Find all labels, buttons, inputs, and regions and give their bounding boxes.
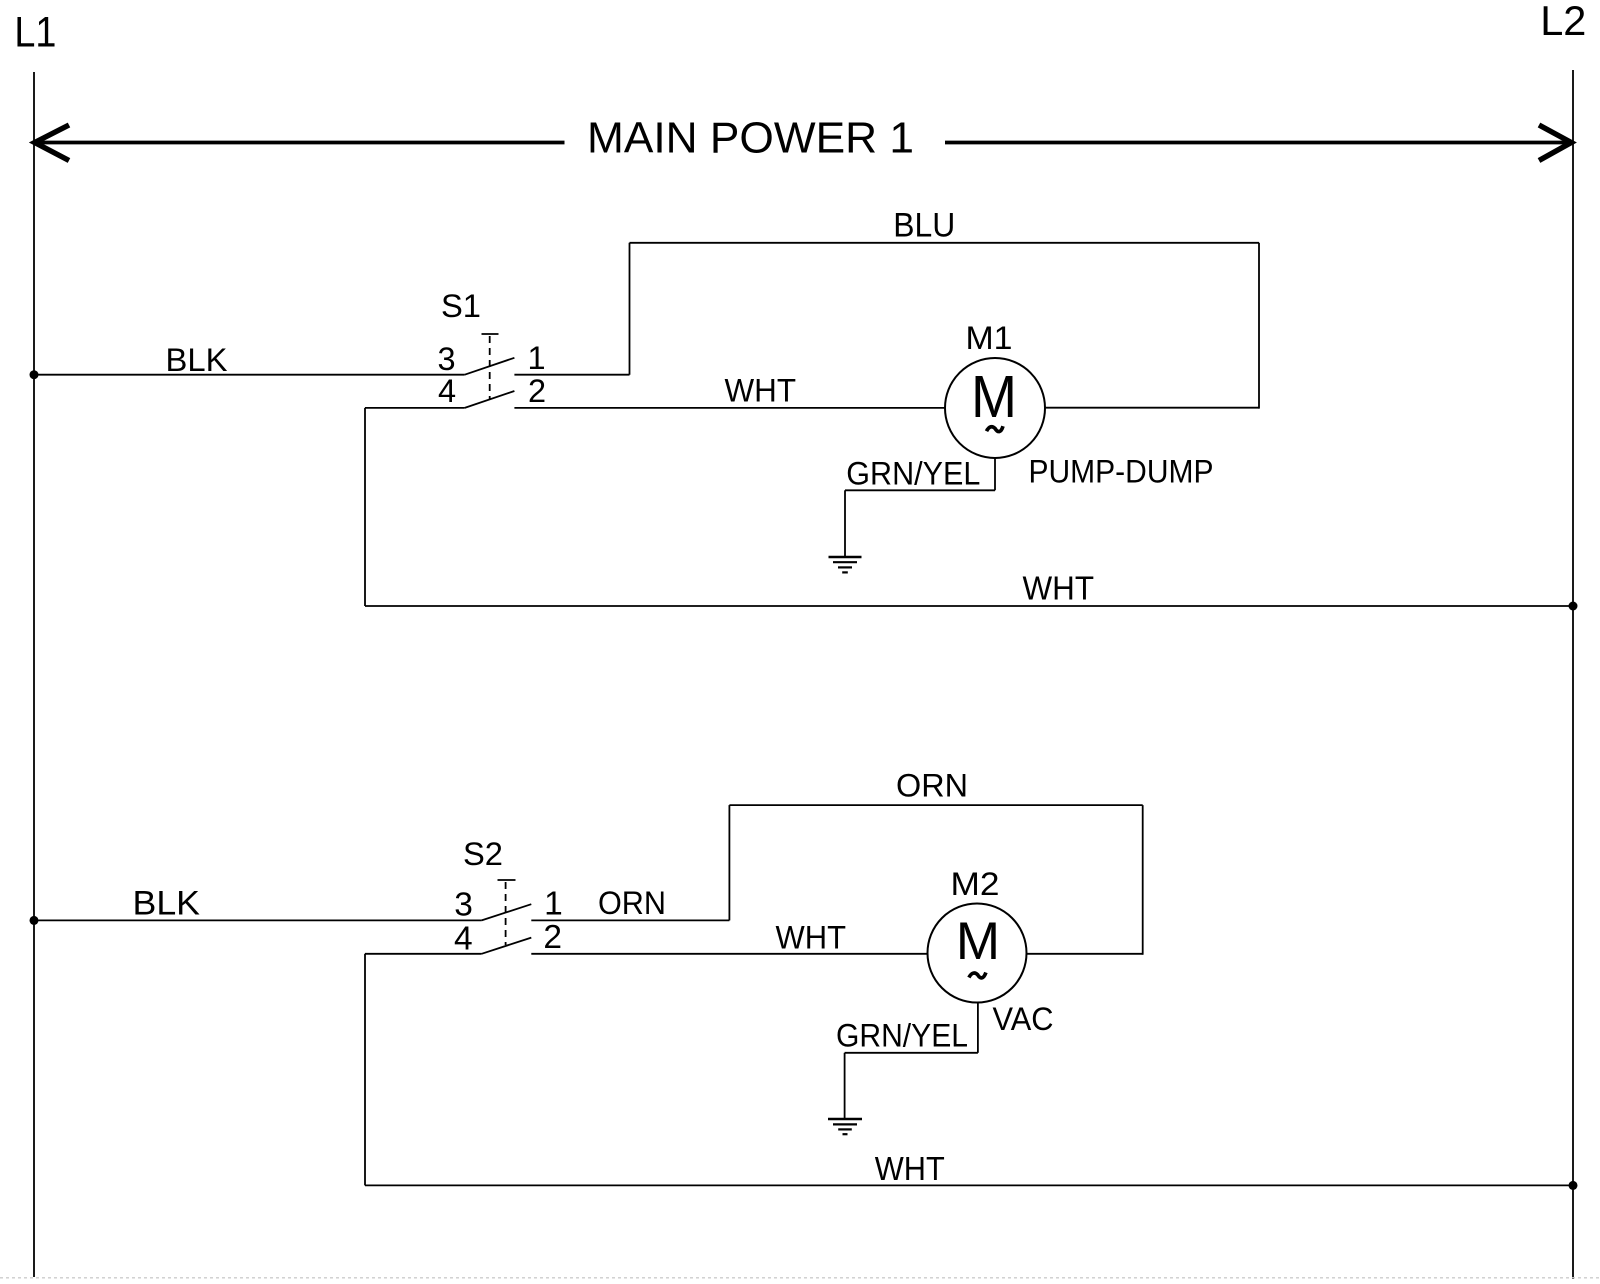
svg-text:WHT: WHT (725, 373, 797, 409)
svg-text:4: 4 (438, 373, 456, 409)
wire BLK from L1 to S1 pin 3 (34, 374, 465, 376)
wire L1 rail (33, 72, 35, 1277)
wire ground lead horizontal (845, 489, 995, 491)
wire WHT return 2 to L2 (365, 1184, 1573, 1186)
wire WHT return to L2 (365, 605, 1573, 607)
svg-text:M2: M2 (951, 866, 1000, 902)
motor M1 tilde (987, 426, 1004, 431)
svg-text:ORN: ORN (896, 768, 968, 804)
svg-text:S1: S1 (441, 288, 481, 324)
bottom edge faint dotted artifact (0, 1277, 1600, 1279)
wire WHT S1 pin2 to M1 (514, 407, 945, 409)
switch S2 actuator T-bar (498, 879, 516, 881)
node junction dot L1/BLK (30, 370, 39, 379)
wire ground lead drop 2 (844, 1053, 846, 1119)
svg-text:L1: L1 (14, 10, 56, 57)
svg-text:WHT: WHT (776, 920, 847, 956)
wire ORN top rail (729, 804, 1142, 806)
svg-text:MAIN POWER 1: MAIN POWER 1 (587, 115, 914, 163)
wire BLU top rail (630, 242, 1260, 244)
svg-text:PUMP-DUMP: PUMP-DUMP (1029, 454, 1214, 490)
wire BLU right drop (1258, 243, 1260, 409)
motor M1 circle (945, 358, 1045, 458)
svg-text:VAC: VAC (993, 1001, 1054, 1037)
wire M2 right lead (1026, 953, 1143, 955)
wire left drop to WHT return (364, 408, 366, 606)
svg-text:S2: S2 (463, 836, 503, 872)
svg-text:4: 4 (454, 920, 473, 957)
motor M2 tilde (969, 973, 986, 978)
switch S1 actuator dashed link (489, 336, 491, 399)
svg-text:2: 2 (528, 373, 546, 409)
wire ground lead horizontal 2 (845, 1052, 978, 1054)
svg-text:BLK: BLK (133, 885, 201, 923)
wire ground lead drop (844, 490, 846, 557)
wire S2 pin1 to ORN riser (531, 919, 729, 921)
svg-text:M: M (971, 364, 1017, 430)
node junction dot WHT/L2 (1569, 602, 1578, 611)
motor M2 circle (928, 904, 1027, 1003)
svg-text:3: 3 (454, 887, 473, 924)
switch S2 actuator dashed link (505, 882, 507, 945)
svg-text:1: 1 (544, 886, 563, 923)
svg-text:WHT: WHT (875, 1151, 945, 1188)
switch S1 pole 3-1 blade (465, 358, 515, 375)
wire BLU riser (629, 243, 631, 375)
wire left drop to WHT return 2 (364, 954, 366, 1186)
wire ORN right drop (1142, 805, 1144, 955)
svg-text:BLK: BLK (166, 342, 228, 378)
svg-text:BLU: BLU (893, 207, 955, 245)
switch S2 pole 4-2 blade (482, 938, 532, 954)
svg-text:L2: L2 (1540, 0, 1586, 44)
MAIN POWER 1 dimension arrow (35, 125, 1572, 161)
wire S1 pin1 to BLU riser (514, 374, 629, 376)
svg-text:2: 2 (543, 919, 562, 956)
svg-text:ORN: ORN (598, 885, 666, 921)
wire L2 rail (1572, 70, 1574, 1279)
wire M2 ground lead down (977, 1003, 979, 1053)
wire WHT S2 pin2 to M2 (531, 953, 927, 955)
wire M1 right lead (1045, 407, 1259, 409)
ground symbol 2 (828, 1119, 862, 1134)
switch S1 pole 4-2 blade (465, 391, 515, 408)
wire M1 ground lead down (994, 458, 996, 490)
wire ORN riser (728, 805, 730, 920)
ground symbol 1 (829, 557, 862, 572)
wire S1 pin4 stub left (365, 407, 465, 409)
svg-text:M: M (956, 912, 1000, 971)
svg-text:WHT: WHT (1023, 570, 1095, 607)
wire S2 pin4 stub left (365, 953, 482, 955)
svg-text:GRN/YEL: GRN/YEL (846, 456, 980, 492)
switch S1 actuator T-bar (482, 333, 499, 335)
wire BLK from L1 to S2 pin 3 (34, 919, 482, 921)
node junction dot WHT/L2 2 (1569, 1181, 1578, 1190)
svg-text:1: 1 (527, 340, 545, 376)
svg-text:3: 3 (437, 341, 455, 377)
switch S2 pole 3-1 blade (482, 904, 532, 920)
node junction dot L1/BLK 2 (30, 916, 39, 925)
svg-text:GRN/YEL: GRN/YEL (836, 1018, 968, 1054)
svg-text:M1: M1 (966, 320, 1013, 356)
